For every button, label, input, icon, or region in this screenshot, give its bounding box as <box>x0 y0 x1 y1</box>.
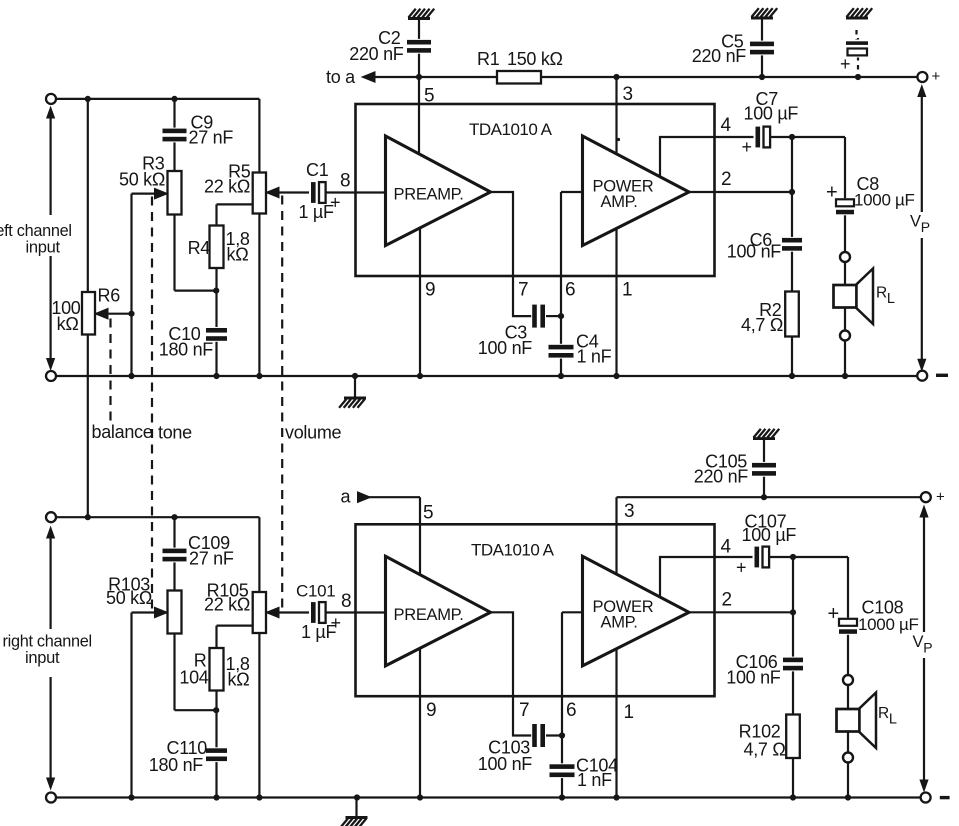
svg-text:+: + <box>936 489 945 506</box>
svg-text:tone: tone <box>158 423 192 443</box>
svg-text:104: 104 <box>179 668 208 688</box>
svg-text:100 nF: 100 nF <box>726 668 781 688</box>
svg-text:1000 µF: 1000 µF <box>858 615 919 634</box>
svg-text:220 nF: 220 nF <box>694 467 749 487</box>
svg-text:PREAMP.: PREAMP. <box>394 606 464 624</box>
svg-text:6: 6 <box>565 280 575 301</box>
svg-text:6: 6 <box>566 700 576 721</box>
svg-text:5: 5 <box>424 86 434 107</box>
svg-text:AMP.: AMP. <box>601 613 638 631</box>
svg-text:100 µF: 100 µF <box>744 104 799 124</box>
svg-text:3: 3 <box>624 501 634 522</box>
svg-text:180 nF: 180 nF <box>159 340 214 360</box>
svg-text:C101: C101 <box>296 582 335 601</box>
svg-text:+: + <box>828 603 839 625</box>
svg-text:8: 8 <box>341 591 351 612</box>
svg-text:8: 8 <box>340 171 350 192</box>
svg-text:4: 4 <box>721 537 732 558</box>
svg-text:+: + <box>932 68 941 85</box>
svg-text:27 nF: 27 nF <box>189 549 234 569</box>
svg-text:+: + <box>742 137 752 157</box>
svg-text:150 kΩ: 150 kΩ <box>507 49 563 69</box>
svg-text:C1: C1 <box>306 160 329 180</box>
svg-text:R6: R6 <box>98 286 121 306</box>
svg-text:R102: R102 <box>739 722 781 742</box>
svg-text:a: a <box>341 487 352 507</box>
svg-text:220 nF: 220 nF <box>692 46 747 66</box>
svg-text:9: 9 <box>426 700 436 721</box>
svg-text:R1: R1 <box>477 49 500 69</box>
svg-text:+: + <box>840 54 850 74</box>
svg-text:50 kΩ: 50 kΩ <box>119 170 165 190</box>
svg-text:+: + <box>736 558 746 578</box>
svg-text:22 kΩ: 22 kΩ <box>204 595 250 615</box>
svg-text:9: 9 <box>425 280 435 301</box>
svg-text:input: input <box>26 239 61 257</box>
svg-text:volume: volume <box>285 423 342 443</box>
svg-text:left channel: left channel <box>0 222 72 240</box>
svg-text:7: 7 <box>519 700 529 721</box>
svg-text:2: 2 <box>721 169 731 190</box>
svg-text:1 µF: 1 µF <box>299 202 334 222</box>
svg-text:100 nF: 100 nF <box>478 338 533 358</box>
svg-text:2: 2 <box>722 590 732 611</box>
svg-text:+: + <box>331 613 341 633</box>
svg-text:R4: R4 <box>188 238 211 258</box>
svg-text:kΩ: kΩ <box>57 314 79 334</box>
svg-text:100 nF: 100 nF <box>727 242 782 262</box>
svg-text:to a: to a <box>326 67 356 87</box>
svg-text:27 nF: 27 nF <box>189 128 234 148</box>
svg-text:3: 3 <box>623 84 633 105</box>
svg-text:PREAMP.: PREAMP. <box>394 186 464 204</box>
svg-text:1: 1 <box>624 702 634 723</box>
svg-text:input: input <box>25 649 60 667</box>
svg-text:1000 µF: 1000 µF <box>854 191 915 210</box>
svg-text:100 nF: 100 nF <box>478 754 533 774</box>
svg-text:22 kΩ: 22 kΩ <box>204 177 250 197</box>
svg-text:TDA1010 A: TDA1010 A <box>471 541 555 560</box>
svg-text:4,7 Ω: 4,7 Ω <box>744 740 786 760</box>
svg-text:1 nF: 1 nF <box>577 770 612 790</box>
svg-text:1: 1 <box>622 280 632 301</box>
svg-text:180 nF: 180 nF <box>149 755 204 775</box>
svg-text:5: 5 <box>423 503 433 524</box>
svg-text:balance: balance <box>92 422 153 442</box>
svg-text:1 nF: 1 nF <box>577 347 612 367</box>
svg-text:kΩ: kΩ <box>228 670 250 690</box>
svg-text:220 nF: 220 nF <box>349 44 404 64</box>
svg-text:7: 7 <box>518 280 528 301</box>
svg-text:4,7 Ω: 4,7 Ω <box>741 315 783 335</box>
svg-text:AMP.: AMP. <box>601 193 638 211</box>
svg-text:right channel: right channel <box>3 633 92 651</box>
svg-text:TDA1010 A: TDA1010 A <box>469 120 553 139</box>
svg-text:+: + <box>330 193 340 213</box>
svg-text:100 µF: 100 µF <box>742 525 797 545</box>
svg-text:50 kΩ: 50 kΩ <box>106 588 152 608</box>
svg-text:+: + <box>826 182 837 204</box>
svg-text:4: 4 <box>721 115 732 136</box>
svg-text:kΩ: kΩ <box>227 245 249 265</box>
